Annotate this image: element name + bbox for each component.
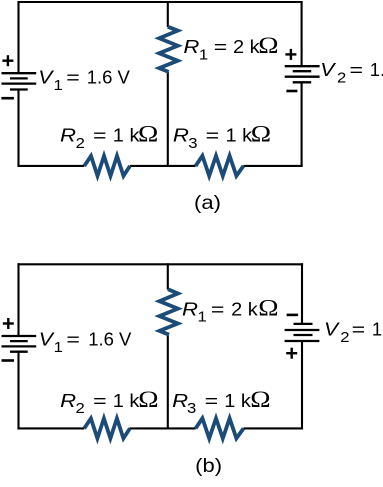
resistor R3 (b) xyxy=(196,418,244,438)
caption (b) xyxy=(195,455,222,477)
label R2 (b) xyxy=(60,387,158,417)
svg-text:R: R xyxy=(60,126,76,146)
svg-text:1 k: 1 k xyxy=(113,391,140,411)
svg-text:=: = xyxy=(352,319,366,339)
svg-text:2 k: 2 k xyxy=(233,38,260,58)
battery V1 (a) xyxy=(2,73,37,89)
svg-text:=: = xyxy=(211,299,225,319)
label R3 (b) xyxy=(172,387,270,417)
wire middle upper (b) xyxy=(167,263,169,289)
svg-text:1: 1 xyxy=(54,340,63,356)
label V2 (a) xyxy=(320,59,383,86)
wire middle lower (b) xyxy=(167,335,169,430)
svg-text:1: 1 xyxy=(54,78,63,94)
svg-text:V: V xyxy=(39,330,55,350)
svg-text:1 k: 1 k xyxy=(226,126,253,146)
plus sign V2 (a) xyxy=(285,49,296,60)
svg-text:=: = xyxy=(214,37,228,57)
wire middle lower (a) xyxy=(167,72,169,167)
svg-text:Ω: Ω xyxy=(138,387,158,412)
svg-text:V: V xyxy=(324,320,340,340)
svg-text:1: 1 xyxy=(199,47,208,63)
resistor R2 (b) xyxy=(84,418,130,438)
svg-text:Ω: Ω xyxy=(258,33,278,58)
wire bottom left segment (b) xyxy=(17,427,84,429)
svg-text:1.4 V: 1.4 V xyxy=(372,318,383,339)
svg-text:2 k: 2 k xyxy=(231,300,258,320)
wire middle upper (a) xyxy=(167,1,169,27)
svg-text:Ω: Ω xyxy=(250,387,270,412)
svg-text:Ω: Ω xyxy=(258,295,278,320)
svg-text:2: 2 xyxy=(337,71,346,87)
svg-text:(b): (b) xyxy=(195,455,222,477)
label V1 (b) xyxy=(39,328,132,355)
resistor R2 (a) xyxy=(84,156,130,176)
caption (a) xyxy=(194,192,221,214)
minus sign V2 (a) xyxy=(286,90,297,93)
svg-text:1: 1 xyxy=(198,310,207,326)
wire right lower (a) xyxy=(301,82,303,167)
wire left upper (a) xyxy=(17,1,19,73)
label R2 (a) xyxy=(60,122,158,152)
svg-text:1.4 V: 1.4 V xyxy=(370,59,383,80)
battery V2 (b) reversed xyxy=(285,324,320,341)
wire right upper (a) xyxy=(301,1,303,66)
svg-text:V: V xyxy=(38,68,54,88)
svg-text:(a): (a) xyxy=(194,192,221,214)
wire right upper (b) xyxy=(301,263,303,324)
svg-text:2: 2 xyxy=(76,401,85,417)
svg-text:1 k: 1 k xyxy=(113,126,140,146)
svg-text:Ω: Ω xyxy=(251,122,271,147)
minus sign V2 (b) xyxy=(287,314,299,317)
svg-text:1 k: 1 k xyxy=(224,391,251,411)
battery V2 (a) xyxy=(285,66,320,82)
wire bottom left segment (a) xyxy=(17,165,84,167)
svg-text:=: = xyxy=(205,391,219,411)
label R1 (b) xyxy=(182,295,279,325)
svg-text:R: R xyxy=(182,300,198,320)
label V1 (a) xyxy=(38,67,130,94)
svg-text:=: = xyxy=(93,126,107,146)
svg-text:Ω: Ω xyxy=(138,122,158,147)
svg-text:=: = xyxy=(66,329,80,349)
svg-text:3: 3 xyxy=(187,401,196,417)
wire left upper (b) xyxy=(17,263,19,336)
plus sign V1 (b) xyxy=(3,318,14,329)
resistor R1 (a) xyxy=(159,27,178,72)
wire bottom right segment (a) xyxy=(244,165,303,167)
plus sign V2 (b) xyxy=(286,348,297,359)
svg-text:V: V xyxy=(320,60,336,80)
wire bottom middle segment (a) xyxy=(130,165,196,167)
svg-text:R: R xyxy=(173,126,189,146)
minus sign V1 (b) xyxy=(2,359,15,362)
svg-text:2: 2 xyxy=(340,330,349,346)
label R3 (a) xyxy=(173,122,271,152)
plus sign V1 (a) xyxy=(2,55,13,66)
wire left lower (a) xyxy=(17,90,19,167)
svg-text:=: = xyxy=(93,391,107,411)
wire bottom middle segment (b) xyxy=(130,427,196,429)
svg-text:=: = xyxy=(206,126,220,146)
svg-text:3: 3 xyxy=(188,136,197,152)
battery V1 (b) xyxy=(2,336,37,352)
svg-text:R: R xyxy=(172,391,188,411)
wire bottom right segment (b) xyxy=(244,427,304,429)
wire top (a) xyxy=(17,1,302,3)
svg-text:1.6 V: 1.6 V xyxy=(88,328,132,349)
wire right lower (b) xyxy=(301,341,303,429)
label R1 (a) xyxy=(183,33,278,63)
label V2 (b) xyxy=(324,318,383,345)
resistor R1 (b) xyxy=(159,289,178,334)
svg-text:=: = xyxy=(350,60,364,80)
svg-text:=: = xyxy=(66,68,80,88)
svg-text:R: R xyxy=(60,391,76,411)
svg-text:2: 2 xyxy=(76,136,85,152)
minus sign V1 (a) xyxy=(1,97,14,100)
wire top (b) xyxy=(17,263,303,265)
svg-text:1.6 V: 1.6 V xyxy=(87,67,131,88)
svg-text:R: R xyxy=(183,38,199,58)
wire left lower (b) xyxy=(17,352,19,430)
resistor R3 (a) xyxy=(196,156,244,176)
